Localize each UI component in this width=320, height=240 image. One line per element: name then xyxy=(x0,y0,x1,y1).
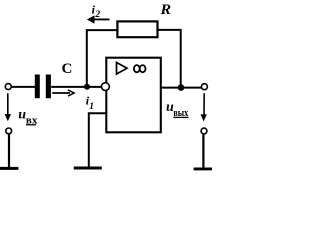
wire resistor to output node xyxy=(158,30,181,85)
wire input terminal to capacitor xyxy=(11,86,35,88)
feedback wire: node up and to resistor xyxy=(87,30,117,85)
svg-text:1: 1 xyxy=(89,102,94,112)
output terminal (top-right) xyxy=(201,84,207,90)
svg-text:C: C xyxy=(62,61,73,77)
u_vyx voltage arrow xyxy=(201,93,207,121)
wire op-amp output xyxy=(161,87,202,89)
ground (right) xyxy=(194,167,213,170)
node A (junction input/feedback) xyxy=(84,84,90,90)
capacitor C xyxy=(35,75,51,99)
wire capacitor to op-amp input xyxy=(51,86,102,88)
lower-left terminal xyxy=(6,128,12,134)
op-amp U1 xyxy=(106,58,161,133)
wire lower-right terminal to ground xyxy=(202,134,204,168)
wire lower-left terminal to ground xyxy=(8,134,10,168)
lower-right terminal xyxy=(201,128,207,134)
u_vx voltage arrow xyxy=(5,93,11,121)
ground (middle) xyxy=(74,166,102,169)
wire non-inverting input to ground xyxy=(89,113,107,167)
svg-text:R: R xyxy=(159,2,171,18)
current arrow i1 xyxy=(52,90,74,96)
svg-text:2: 2 xyxy=(94,10,100,20)
resistor R xyxy=(117,21,157,37)
input terminal (top-left) xyxy=(5,84,11,90)
current arrow i2 xyxy=(87,16,109,24)
ground (left) xyxy=(0,167,18,170)
node B (output junction) xyxy=(178,84,185,91)
inverting input bubble xyxy=(102,83,110,91)
